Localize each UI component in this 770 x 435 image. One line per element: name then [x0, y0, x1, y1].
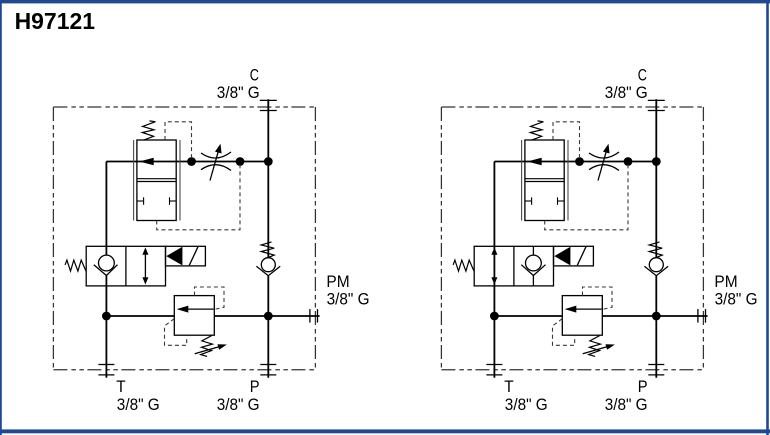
check valve spring circuit 1	[261, 242, 274, 257]
port PM label circuit 2	[714, 272, 757, 308]
solenoid actuator circuit 2	[554, 246, 594, 266]
relief valve body circuit 2	[562, 296, 602, 336]
junction: reducing valve pilot on top line circuit 1	[187, 157, 196, 166]
wire: port C stub down to check valve V1 spring	[267, 99, 269, 258]
svg-text:3/8" G: 3/8" G	[605, 395, 648, 414]
port P symbol (boundary ticks) circuit 2	[648, 364, 664, 366]
adjustable throttle (flow restrictor) circuit 2	[589, 144, 619, 181]
svg-text:3/8" G: 3/8" G	[217, 83, 260, 102]
port C symbol (boundary ticks) circuit 1	[260, 99, 277, 101]
wire: bottom horizontal right segment (relief valve to port PM) circuit 1	[214, 315, 319, 317]
junction: reducing valve pilot on top line circuit 2	[575, 157, 584, 166]
svg-text:3/8" G: 3/8" G	[117, 395, 160, 414]
svg-text:T: T	[116, 377, 125, 396]
node P junction (right vertical / bottom line) circuit 2	[652, 312, 661, 321]
page frame right bar	[766, 0, 769, 435]
wire: bottom horizontal right segment (relief valve to port PM) circuit 2	[602, 315, 707, 317]
reducing valve side rails circuit 1	[134, 140, 180, 221]
svg-text:C: C	[250, 65, 259, 84]
node C junction (top line / right vertical) circuit 1	[264, 157, 273, 166]
port T label circuit 1	[116, 377, 159, 414]
solenoid valve position 2: free flow double arrow circuit 1	[142, 247, 148, 284]
solenoid valve return spring circuit 2	[453, 260, 474, 271]
reducing valve drain pilot line (dashed) circuit 2	[545, 162, 628, 230]
solenoid valve return spring circuit 1	[65, 260, 86, 271]
port P label circuit 2	[605, 377, 648, 414]
svg-text:P: P	[638, 377, 648, 396]
check valve ball circuit 1	[261, 258, 275, 272]
wire: top horizontal line (reducing valve to node C) circuit 2	[494, 161, 656, 163]
solenoid valve body (2/2) circuit 1	[86, 246, 165, 286]
wire: port C stub down to check valve V2 spring	[655, 99, 657, 258]
reducing valve side rails circuit 2	[522, 140, 568, 221]
reducing valve drain pilot line (dashed) circuit 1	[157, 162, 240, 230]
relief valve pilot line (dashed, from upstream) circuit 1	[195, 287, 225, 309]
junction: reducing valve drain pilot on top line circuit 1	[236, 157, 245, 166]
relief valve flow arrow circuit 1	[177, 306, 214, 313]
manifold enclosure (dash-dot border) circuit 2	[441, 107, 703, 370]
svg-text:T: T	[504, 377, 513, 396]
svg-text:3/8" G: 3/8" G	[505, 395, 548, 414]
solenoid valve position 1: free flow double arrow circuit 2	[491, 247, 497, 284]
node P junction (right vertical / bottom line) circuit 1	[264, 312, 273, 321]
solenoid valve position 2: pilot-to-close check (ball on seat) circuit 2	[521, 246, 545, 286]
relief valve adjustable spring circuit 2	[589, 336, 601, 357]
relief valve adjustment arrow circuit 1	[195, 344, 227, 354]
svg-text:PM: PM	[714, 272, 737, 291]
wire: right vertical lower segment (check valve seat to port P) circuit 1	[267, 276, 269, 378]
check valve seat circuit 2	[644, 266, 668, 275]
node T junction (left vertical / bottom line) circuit 2	[490, 312, 499, 321]
port P symbol (boundary ticks) circuit 1	[260, 364, 276, 366]
port PM symbol (boundary ticks) circuit 2	[697, 309, 699, 323]
reducing valve spring circuit 1	[142, 121, 155, 140]
reducing valve flow arrow circuit 1	[139, 158, 154, 166]
port C label circuit 1	[217, 65, 260, 102]
port T symbol (boundary ticks) circuit 2	[486, 364, 502, 366]
node T junction (left vertical / bottom line) circuit 1	[102, 312, 111, 321]
wire: top horizontal line (reducing valve to node C) circuit 1	[106, 161, 268, 163]
svg-text:H97121: H97121	[15, 8, 96, 34]
wire: left vertical line (corner to port T) circuit 2	[493, 162, 495, 378]
wire: left vertical lower segment (seat to port T) circuit 1	[105, 275, 107, 378]
svg-text:3/8" G: 3/8" G	[327, 289, 370, 308]
svg-text:PM: PM	[326, 272, 349, 291]
page frame left bar	[0, 0, 2, 435]
reducing valve blocked ports circuit 1	[137, 197, 176, 205]
port PM label circuit 1	[326, 272, 369, 308]
check valve seat circuit 1	[256, 266, 280, 275]
port C symbol (boundary ticks) circuit 2	[648, 99, 665, 101]
port PM symbol (boundary ticks) circuit 1	[309, 309, 311, 323]
adjustable throttle (flow restrictor) circuit 1	[201, 144, 231, 181]
port P label circuit 1	[217, 377, 260, 414]
solenoid valve position 1: pilot-to-close check (ball on seat) circuit 1	[94, 255, 118, 275]
check valve ball circuit 2	[649, 258, 663, 272]
wire: right vertical lower segment (check valve seat to port P) circuit 2	[655, 276, 657, 378]
reducing valve blocked ports circuit 2	[525, 197, 564, 205]
pressure reducing valve body circuit 2	[525, 140, 564, 221]
relief valve flow arrow circuit 2	[565, 306, 602, 313]
svg-text:3/8" G: 3/8" G	[217, 395, 260, 414]
junction: reducing valve drain pilot on top line circuit 2	[624, 157, 633, 166]
relief valve adjustment arrow circuit 2	[583, 344, 615, 354]
page frame bottom bar	[0, 429, 770, 433]
reducing valve pilot line (dashed, to upstream node) circuit 2	[553, 122, 580, 162]
relief valve drain pilot line (dashed) circuit 1	[165, 319, 187, 346]
wire: bottom horizontal left segment (node T to relief valve) circuit 2	[494, 315, 562, 317]
port C label circuit 2	[605, 65, 648, 102]
pressure reducing valve body circuit 1	[137, 140, 176, 221]
relief valve body circuit 1	[174, 296, 214, 336]
svg-text:P: P	[250, 377, 260, 396]
svg-text:3/8" G: 3/8" G	[605, 83, 648, 102]
manifold enclosure (dash-dot border) circuit 1	[53, 107, 315, 370]
reducing valve spring circuit 2	[530, 121, 543, 140]
wire: bottom horizontal left segment (node T to relief valve) circuit 1	[106, 315, 174, 317]
relief valve adjustable spring circuit 1	[201, 336, 213, 357]
solenoid valve body (2/2) circuit 2	[474, 246, 553, 286]
node C junction (top line / right vertical) circuit 2	[652, 157, 661, 166]
solenoid actuator circuit 1	[166, 246, 206, 266]
check valve spring circuit 2	[649, 242, 662, 257]
svg-text:3/8" G: 3/8" G	[715, 289, 758, 308]
relief valve pilot line (dashed, from upstream) circuit 2	[583, 287, 613, 309]
page frame top bar	[0, 0, 770, 3]
port T symbol (boundary ticks) circuit 1	[98, 364, 114, 366]
svg-text:C: C	[638, 65, 647, 84]
reducing valve pilot line (dashed, to upstream node) circuit 1	[165, 122, 192, 162]
reducing valve flow arrow circuit 2	[527, 158, 542, 166]
relief valve drain pilot line (dashed) circuit 2	[553, 319, 575, 346]
wire: left vertical upper segment (corner to check ball in valve square) circuit 1	[105, 162, 107, 256]
port T label circuit 2	[504, 377, 547, 414]
